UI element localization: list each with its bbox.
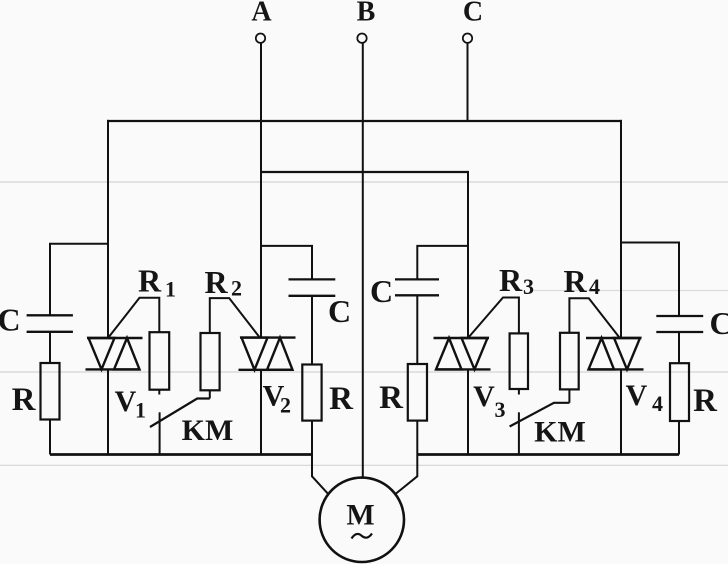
wire phase B column (362, 43, 364, 477)
svg-text:R: R (138, 262, 162, 298)
capacitor inner-left C (289, 279, 336, 295)
wire outer-right resistor to rail (678, 421, 680, 455)
wire V2 below (260, 370, 262, 455)
wire motor lead left diagonal (312, 476, 328, 493)
resistor inner-right R (408, 364, 427, 421)
svg-text:4: 4 (652, 391, 663, 416)
triac V1 (86, 338, 143, 369)
svg-text:C: C (370, 273, 393, 309)
scan artifact line 2 (530, 290, 728, 292)
svg-text:C: C (328, 293, 351, 329)
svg-text:R: R (693, 383, 718, 419)
triac V2 (239, 338, 296, 370)
wire inner-left resistor to motor lead (311, 421, 313, 477)
resistor R3 (510, 333, 528, 389)
label motor tilde (352, 534, 373, 539)
wire R3 stub to KM contact (518, 389, 520, 395)
svg-text:V: V (626, 379, 648, 412)
wire branch inner-right snubber (417, 246, 468, 280)
resistor outer-right R (670, 363, 689, 421)
wire inner-right resistor to motor lead (416, 421, 418, 477)
wire branch outer-left snubber (50, 244, 107, 316)
svg-text:4: 4 (589, 274, 600, 299)
svg-text:R: R (499, 262, 523, 298)
wire phase A drop (260, 43, 262, 338)
wire V2 gate to R2 (210, 298, 260, 338)
svg-text:KM: KM (534, 416, 586, 449)
wire left C-bus drop to V1 (107, 120, 109, 338)
wire branch outer-right snubber (621, 243, 679, 316)
wire outer-left resistor to rail (49, 420, 51, 455)
wire inner-left cap to resistor (311, 296, 313, 365)
svg-text:R: R (204, 264, 228, 300)
wire C bus horizontal (107, 120, 622, 122)
wire rail left (50, 453, 312, 456)
wire inner-right cap to resistor (416, 295, 418, 364)
wire A bus horizontal (261, 171, 468, 173)
capacitor outer-right C (656, 316, 703, 332)
wire KM right lower contact to rail (518, 412, 520, 454)
switch KM left blade (150, 399, 210, 428)
wire outer-left cap to resistor (49, 332, 51, 363)
wire motor lead right diagonal (396, 476, 417, 493)
triac V3 (434, 338, 491, 369)
svg-text:C: C (463, 0, 483, 28)
svg-text:3: 3 (495, 397, 506, 422)
svg-text:R: R (563, 263, 587, 299)
wire V1 gate to R1 (108, 298, 159, 338)
svg-text:R: R (379, 380, 404, 416)
wire A-bus drop to V3 (467, 171, 469, 338)
svg-text:3: 3 (523, 274, 534, 299)
wire R1 stub to KM contact (158, 390, 160, 395)
wire rail right (417, 453, 679, 456)
wire right C-bus drop to V4 (620, 120, 622, 338)
terminal B (357, 34, 366, 43)
resistor R1 (150, 332, 170, 390)
wire R2 stub (209, 390, 211, 398)
svg-text:2: 2 (280, 392, 291, 417)
terminal A (256, 34, 265, 43)
resistor R2 (201, 333, 220, 390)
capacitor outer-left C (27, 315, 73, 332)
motor M (320, 478, 404, 562)
triac V4 (586, 338, 644, 369)
wire phase C drop (467, 43, 469, 122)
scan artifact line 3 (0, 371, 728, 373)
svg-text:M: M (346, 499, 374, 532)
switch KM right blade (510, 403, 570, 427)
resistor inner-left R (302, 365, 321, 421)
svg-text:V: V (115, 385, 137, 418)
resistor R4 (560, 333, 579, 390)
resistor outer-left R (41, 363, 60, 420)
svg-text:V: V (473, 380, 495, 413)
wire V3 below (467, 369, 469, 454)
wire V4 gate to R4 (569, 298, 619, 338)
svg-text:1: 1 (165, 277, 176, 302)
svg-text:B: B (357, 0, 376, 28)
scan artifact line 4 (0, 464, 728, 466)
svg-text:R: R (329, 381, 354, 417)
capacitor inner-right C (395, 279, 439, 295)
wire outer-right cap to resistor (678, 332, 680, 363)
wire V4 below (620, 369, 622, 454)
svg-text:1: 1 (135, 398, 146, 423)
terminal C (463, 34, 472, 43)
scan artifact line 1 (0, 181, 728, 183)
svg-text:KM: KM (182, 414, 234, 447)
svg-text:2: 2 (231, 276, 242, 301)
wire V3 gate to R3 (468, 298, 519, 339)
svg-text:C: C (709, 305, 728, 341)
wire R4 stub (568, 389, 570, 402)
wire V1 below (107, 369, 109, 454)
wire branch inner-left snubber (261, 246, 312, 280)
wire KM left lower contact to rail (159, 412, 161, 454)
svg-text:A: A (251, 0, 272, 28)
svg-text:C: C (0, 302, 21, 338)
svg-text:R: R (12, 382, 37, 418)
